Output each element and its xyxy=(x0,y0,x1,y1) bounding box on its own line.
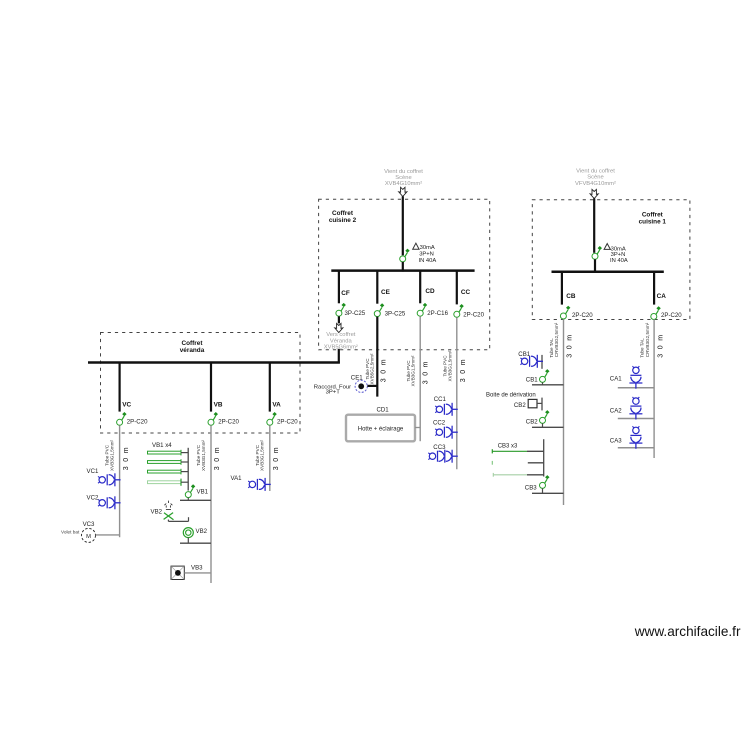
svg-text:M: M xyxy=(86,534,91,540)
svg-text:2P-C16: 2P-C16 xyxy=(427,310,448,317)
svg-text:VB1: VB1 xyxy=(197,488,209,495)
svg-text:VFVB4G10mm²: VFVB4G10mm² xyxy=(575,181,616,187)
svg-text:2P-C20: 2P-C20 xyxy=(127,419,148,426)
svg-text:CC1: CC1 xyxy=(434,396,447,403)
svg-text:CRVB3G2,5mm²: CRVB3G2,5mm² xyxy=(645,322,650,357)
svg-text:Tube PVC: Tube PVC xyxy=(443,355,448,377)
svg-text:CB2: CB2 xyxy=(526,419,538,426)
svg-text:CC2: CC2 xyxy=(433,420,446,427)
svg-text:Tube PVC: Tube PVC xyxy=(105,444,110,466)
svg-text:VB1 x4: VB1 x4 xyxy=(152,442,172,449)
svg-text:Scène: Scène xyxy=(587,175,603,181)
svg-text:CB3 x3: CB3 x3 xyxy=(498,443,518,449)
svg-text:XVB4G10mm²: XVB4G10mm² xyxy=(385,181,422,187)
svg-text:CA3: CA3 xyxy=(610,437,622,444)
svg-text:VB2: VB2 xyxy=(196,528,208,535)
svg-text:CF: CF xyxy=(341,290,350,297)
svg-text:Coffret: Coffret xyxy=(182,340,204,347)
svg-text:IN 40A: IN 40A xyxy=(610,258,628,264)
svg-text:Tube TAL: Tube TAL xyxy=(549,338,554,358)
svg-text:Vers coffret: Vers coffret xyxy=(326,332,356,338)
svg-text:Tube PVC: Tube PVC xyxy=(255,444,260,466)
svg-text:VC: VC xyxy=(122,401,131,408)
svg-text:XVB3G1,5mm²: XVB3G1,5mm² xyxy=(447,350,452,381)
svg-text:Vient du coffret: Vient du coffret xyxy=(384,169,423,175)
svg-text:XVB3G1,5mm²: XVB3G1,5mm² xyxy=(201,440,206,471)
svg-text:Véranda: Véranda xyxy=(330,338,353,344)
svg-text:2P-C20: 2P-C20 xyxy=(277,419,298,426)
svg-text:cuisine 2: cuisine 2 xyxy=(329,217,357,224)
svg-text:3P+T: 3P+T xyxy=(326,390,341,396)
svg-text:2P-C20: 2P-C20 xyxy=(463,311,484,318)
svg-text:Tube TAL: Tube TAL xyxy=(639,338,644,358)
svg-text:XVB5G2,5mm²: XVB5G2,5mm² xyxy=(369,353,374,384)
svg-text:30m: 30m xyxy=(460,355,467,382)
svg-text:Scène: Scène xyxy=(395,175,411,181)
svg-text:VA: VA xyxy=(272,401,281,408)
svg-text:CD1: CD1 xyxy=(377,407,390,414)
svg-text:CD: CD xyxy=(425,288,435,295)
svg-text:CB3: CB3 xyxy=(525,484,537,491)
svg-text:CA: CA xyxy=(657,293,667,300)
svg-text:CE: CE xyxy=(381,289,391,296)
svg-text:XVB5G6mm²: XVB5G6mm² xyxy=(324,345,358,351)
svg-text:VB2: VB2 xyxy=(151,509,163,516)
svg-text:VA1: VA1 xyxy=(231,475,243,482)
svg-text:CB1: CB1 xyxy=(526,377,538,384)
svg-text:2P-C20: 2P-C20 xyxy=(572,312,593,319)
svg-text:3P-C25: 3P-C25 xyxy=(385,311,406,318)
svg-text:30m: 30m xyxy=(422,357,429,384)
svg-text:Hotte + éclairage: Hotte + éclairage xyxy=(358,426,404,432)
svg-text:VC1: VC1 xyxy=(87,468,99,475)
svg-text:CRVB3G2,5mm²: CRVB3G2,5mm² xyxy=(554,322,559,357)
svg-text:Tube PVC: Tube PVC xyxy=(406,360,411,382)
svg-text:cuisine 1: cuisine 1 xyxy=(639,219,667,226)
svg-text:2P-C20: 2P-C20 xyxy=(661,312,682,319)
svg-text:Volet bat: Volet bat xyxy=(61,530,80,535)
svg-text:VB3: VB3 xyxy=(191,564,203,571)
svg-text:Coffret: Coffret xyxy=(332,210,354,217)
svg-text:30mA: 30mA xyxy=(420,245,435,251)
svg-text:Coffret: Coffret xyxy=(642,211,664,218)
svg-text:IN 40A: IN 40A xyxy=(419,258,437,264)
svg-text:VC2: VC2 xyxy=(87,494,99,501)
svg-text:30m: 30m xyxy=(567,330,574,357)
svg-text:XVB3G1,5mm²: XVB3G1,5mm² xyxy=(109,440,114,471)
svg-text:www.archifacile.fr: www.archifacile.fr xyxy=(634,624,741,639)
svg-text:Tube PVC: Tube PVC xyxy=(365,358,370,380)
svg-text:30m: 30m xyxy=(273,443,280,470)
svg-text:30m: 30m xyxy=(214,443,221,470)
svg-text:VC3: VC3 xyxy=(83,521,95,528)
svg-text:30m: 30m xyxy=(381,355,388,382)
svg-text:CB1: CB1 xyxy=(518,351,530,358)
svg-text:30m: 30m xyxy=(123,443,130,470)
svg-text:XVB3G1,5mm²: XVB3G1,5mm² xyxy=(411,355,416,386)
svg-text:2P-C20: 2P-C20 xyxy=(218,419,239,426)
svg-text:VB: VB xyxy=(214,401,223,408)
svg-text:Vient du coffret: Vient du coffret xyxy=(576,169,615,175)
svg-text:XVB3G1,5mm²: XVB3G1,5mm² xyxy=(260,440,265,471)
svg-text:Boite de dérivation: Boite de dérivation xyxy=(486,392,536,398)
svg-text:CC3: CC3 xyxy=(433,444,446,451)
svg-text:CA2: CA2 xyxy=(610,407,622,414)
svg-text:3P+N: 3P+N xyxy=(419,251,434,257)
svg-text:CB: CB xyxy=(566,293,576,300)
svg-text:30m: 30m xyxy=(657,330,664,357)
svg-text:CA1: CA1 xyxy=(610,375,622,382)
svg-text:CB2: CB2 xyxy=(514,402,526,409)
svg-text:Tube PVC: Tube PVC xyxy=(196,444,201,466)
svg-text:3P-C25: 3P-C25 xyxy=(345,310,366,317)
svg-text:véranda: véranda xyxy=(180,347,205,354)
svg-text:CC: CC xyxy=(461,289,471,296)
